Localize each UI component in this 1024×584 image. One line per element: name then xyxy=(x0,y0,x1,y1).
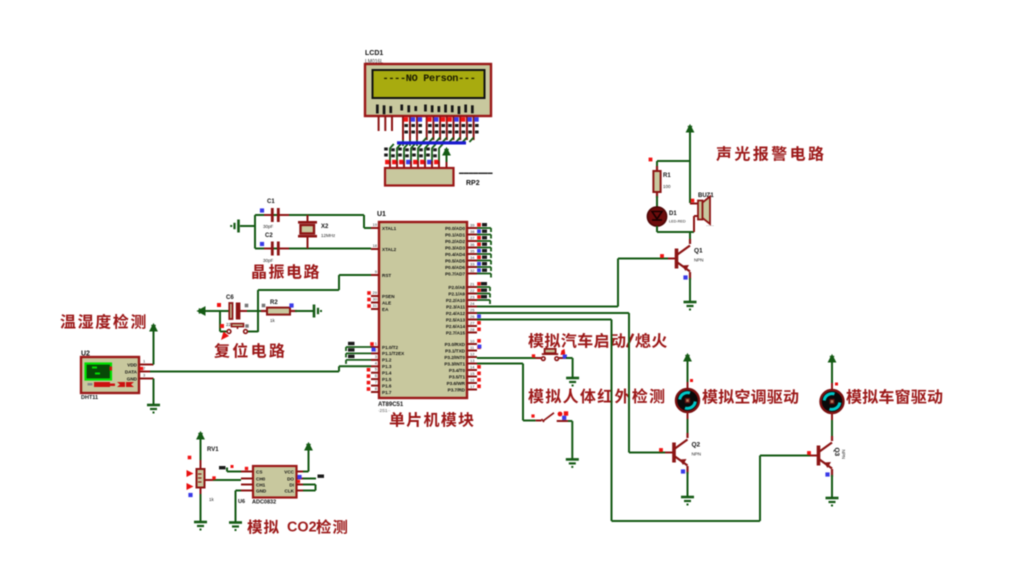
potentiometer RV1 xyxy=(197,469,214,488)
svg-text:P2.1/A9: P2.1/A9 xyxy=(448,291,465,296)
svg-text:34: 34 xyxy=(470,255,475,260)
LCD pins D0-D7 xyxy=(427,116,474,140)
resistor R1 xyxy=(653,166,660,198)
svg-text:VCC: VCC xyxy=(284,470,294,475)
wire XTAL bottom net xyxy=(255,248,371,250)
svg-text:·2S1··: ·2S1·· xyxy=(378,408,391,413)
svg-text:12: 12 xyxy=(470,352,475,357)
switch infrared xyxy=(536,413,568,422)
svg-text:DHT11: DHT11 xyxy=(81,395,98,401)
svg-text:39: 39 xyxy=(470,223,475,228)
wire Q2 emitter ground xyxy=(687,472,689,496)
svg-text:P2.0/A8: P2.0/A8 xyxy=(448,285,465,290)
power reset (left arrow) xyxy=(198,307,214,315)
svg-text:C2: C2 xyxy=(265,233,273,239)
svg-text:P1.1/T2EX: P1.1/T2EX xyxy=(382,351,405,356)
ADC GND wire xyxy=(236,490,242,492)
svg-text:P0.7/AD7: P0.7/AD7 xyxy=(445,271,465,276)
wire alarm bottom rail xyxy=(657,231,694,233)
svg-text:P3.7/RD: P3.7/RD xyxy=(448,387,466,392)
svg-text:30pF: 30pF xyxy=(263,258,274,263)
ADC DI-CLK loop xyxy=(303,484,316,486)
svg-text:CH1: CH1 xyxy=(256,483,266,488)
wire Q1 emitter to ground xyxy=(689,278,691,301)
wire power to RV1 xyxy=(200,440,202,460)
wire MCU P2.5 to Q3 base xyxy=(477,319,612,321)
wire Q2 base xyxy=(629,452,667,454)
svg-text:P1.0/T2: P1.0/T2 xyxy=(382,345,399,350)
wire reset top xyxy=(211,310,229,312)
wire RV1 to ground xyxy=(200,488,202,495)
LCD RS RW E net hooks xyxy=(403,140,417,146)
power alarm xyxy=(686,125,693,135)
svg-text:33: 33 xyxy=(470,262,475,267)
ground Q1 xyxy=(684,302,697,310)
svg-text:P3.5/T1: P3.5/T1 xyxy=(449,374,466,379)
reset button xyxy=(227,324,247,334)
wire switch to ground xyxy=(568,420,572,422)
P0 net label specks xyxy=(482,223,487,272)
LCD pin markers xyxy=(404,117,409,122)
wire C6 to R2 xyxy=(247,310,267,312)
ADC DO net stub xyxy=(303,478,316,480)
motor M1 aircon xyxy=(676,389,699,412)
svg-text:▬▬▬▬▬▬▬: ▬▬▬▬▬▬▬ xyxy=(459,171,493,176)
label 温湿度检测 xyxy=(60,314,145,329)
P0 P2 pin markers xyxy=(477,223,481,227)
MCU left pin stubs xyxy=(371,228,379,392)
svg-text:RP2: RP2 xyxy=(466,180,480,187)
ADC U6 body ADC0832 xyxy=(253,466,297,498)
wire XTAL top net xyxy=(255,214,364,216)
capacitor C6 xyxy=(229,303,249,319)
svg-text:P1.6: P1.6 xyxy=(382,383,392,388)
svg-text:P3.4/T0: P3.4/T0 xyxy=(449,368,466,373)
svg-text:U6: U6 xyxy=(238,499,245,505)
LCD pin name marks under screen xyxy=(376,105,474,115)
svg-text:P2.4/A12: P2.4/A12 xyxy=(446,311,466,316)
svg-text:X2: X2 xyxy=(321,224,329,230)
DHT11 pins xyxy=(139,365,154,379)
svg-text:P2.5/A13: P2.5/A13 xyxy=(446,317,466,322)
svg-text:DATA: DATA xyxy=(125,370,138,375)
svg-text:PSEN: PSEN xyxy=(382,294,395,299)
svg-text:GND: GND xyxy=(127,377,138,382)
LCD net label specks xyxy=(404,124,478,134)
svg-text:DI: DI xyxy=(289,483,294,488)
svg-text:3: 3 xyxy=(143,373,146,378)
DHT11 display xyxy=(86,364,112,380)
label 模拟空调驱动 xyxy=(702,389,798,404)
svg-text:30pF: 30pF xyxy=(263,224,274,229)
svg-text:NPN: NPN xyxy=(841,450,846,460)
svg-text:P0.3/AD3: P0.3/AD3 xyxy=(445,245,465,250)
transistor Q2 xyxy=(674,440,688,466)
LCD LCD1 body xyxy=(365,64,491,116)
RP2 pins xyxy=(390,161,439,168)
LCD pins RS RW E xyxy=(403,116,417,140)
svg-text:ADC0832: ADC0832 xyxy=(252,500,276,506)
wire LED to rail xyxy=(656,226,658,232)
svg-text:12MHz: 12MHz xyxy=(321,233,336,238)
svg-text:P1.4: P1.4 xyxy=(382,371,392,376)
svg-text:P2.7/A15: P2.7/A15 xyxy=(446,330,466,335)
wire ground stub xyxy=(240,225,255,227)
crystal X2 xyxy=(298,215,317,249)
svg-text:C1: C1 xyxy=(267,199,275,205)
svg-text:11: 11 xyxy=(470,345,475,350)
svg-text:NPN: NPN xyxy=(694,258,704,263)
svg-text:BUZ1: BUZ1 xyxy=(698,193,714,199)
wire power to motor1 xyxy=(687,362,689,382)
svg-text:27: 27 xyxy=(470,321,475,326)
svg-text:Q1: Q1 xyxy=(694,248,703,255)
svg-text:1: 1 xyxy=(375,341,378,346)
svg-text:30: 30 xyxy=(373,297,378,302)
power RV1 xyxy=(197,432,204,442)
svg-text:P0.1/AD1: P0.1/AD1 xyxy=(445,232,465,237)
button red arrow xyxy=(221,332,229,341)
capacitor C2 xyxy=(264,242,289,256)
svg-text:LCD1: LCD1 xyxy=(365,50,383,57)
svg-text:P2.2/A10: P2.2/A10 xyxy=(446,298,466,303)
P3 unused pin markers xyxy=(477,339,481,343)
svg-text:35: 35 xyxy=(470,249,475,254)
svg-text:Q2: Q2 xyxy=(692,442,701,449)
label 晶振电路 xyxy=(252,264,319,279)
wire DHT11 GND xyxy=(153,379,155,405)
svg-text:NPN: NPN xyxy=(692,452,702,457)
svg-text:8: 8 xyxy=(375,386,378,391)
svg-text:26: 26 xyxy=(470,314,475,319)
wire DHT11 VDD xyxy=(153,332,155,365)
svg-text:9: 9 xyxy=(375,269,378,274)
wire R1 top lead xyxy=(656,161,658,171)
MCU left pin markers xyxy=(367,291,371,295)
svg-text:29: 29 xyxy=(373,290,378,295)
transistor Q1 xyxy=(689,239,691,280)
power ADC xyxy=(305,443,312,453)
svg-text:R2: R2 xyxy=(270,300,278,306)
svg-text:U1: U1 xyxy=(377,211,386,218)
svg-text:CLK: CLK xyxy=(285,489,295,494)
P1.0-P1.2 net stubs xyxy=(346,347,371,364)
DHT11 sensor body xyxy=(81,357,139,393)
svg-text:P3.6/WR: P3.6/WR xyxy=(447,381,466,386)
svg-text:CS: CS xyxy=(256,470,262,475)
MCU right pin stubs xyxy=(467,228,477,390)
svg-text:R1: R1 xyxy=(663,173,671,179)
svg-text:P2.6/A14: P2.6/A14 xyxy=(446,324,466,329)
svg-text:DO: DO xyxy=(287,477,294,482)
svg-text:7: 7 xyxy=(375,380,378,385)
wire MCU P2.4 to Q2 base xyxy=(477,312,629,314)
P0 net stub wires to LCD data xyxy=(477,228,491,278)
resistor R2 xyxy=(261,308,297,315)
wire motor2 to Q3 xyxy=(831,413,833,421)
wire button branch xyxy=(219,311,221,332)
wire RST net xyxy=(339,274,371,276)
svg-text:P1.3: P1.3 xyxy=(382,364,392,369)
power motor1 xyxy=(684,354,691,364)
wire alarm vertical xyxy=(689,133,691,203)
svg-text:VDD: VDD xyxy=(127,363,137,368)
ground button xyxy=(566,378,579,386)
LCD screen xyxy=(373,70,485,98)
svg-text:P3.0/RXD: P3.0/RXD xyxy=(445,342,466,347)
svg-text:21: 21 xyxy=(470,282,475,287)
svg-text:----NO Person---: ----NO Person--- xyxy=(383,74,476,85)
wires LCD D0-D7 to bus to RP2 xyxy=(390,138,474,162)
button start/stop xyxy=(536,349,567,361)
svg-text:ALE: ALE xyxy=(382,300,391,305)
ADC CS net stub xyxy=(227,471,241,473)
label 声光报警电路 xyxy=(716,146,823,161)
svg-text:17: 17 xyxy=(470,384,475,389)
ground reset (rotated right) xyxy=(314,305,321,318)
wire DHT11 DATA to MCU P1.3 xyxy=(150,371,339,373)
svg-text:······: ······ xyxy=(706,223,714,228)
DHT11 bottom red marks xyxy=(94,382,134,387)
svg-text:XTAL2: XTAL2 xyxy=(382,247,397,252)
svg-text:D1: D1 xyxy=(669,211,677,217)
svg-text:P0.5/AD5: P0.5/AD5 xyxy=(445,258,465,263)
MCU left pin labels xyxy=(382,226,405,395)
power RP2 xyxy=(443,148,450,158)
svg-text:36: 36 xyxy=(470,242,475,247)
bus xyxy=(397,141,466,144)
svg-text:37: 37 xyxy=(470,236,475,241)
svg-text:P1.7: P1.7 xyxy=(382,390,392,395)
ground crystal (rotated) xyxy=(231,220,238,233)
ground DHT11 xyxy=(147,405,160,413)
svg-text:C6: C6 xyxy=(226,295,234,301)
power DHT11 VDD xyxy=(150,324,157,334)
label 模拟CO2检测 xyxy=(247,519,347,535)
wire Q3 emitter ground xyxy=(831,475,833,497)
svg-text:13: 13 xyxy=(470,358,475,363)
svg-text:P0.4/AD4: P0.4/AD4 xyxy=(445,252,465,257)
RP2 pin markers xyxy=(385,160,390,165)
ground Q3 xyxy=(826,498,839,506)
svg-text:1k: 1k xyxy=(209,497,215,502)
wire trunk left xyxy=(254,215,256,249)
label 模拟车窗驱动 xyxy=(846,389,942,404)
LCD pins VSS VDD VEE xyxy=(379,116,392,131)
svg-text:6: 6 xyxy=(375,373,378,378)
svg-text:Q3: Q3 xyxy=(833,448,840,457)
label 模拟汽车启动熄火 xyxy=(528,333,667,348)
svg-text:23: 23 xyxy=(470,295,475,300)
ADC internal pin labels xyxy=(256,470,267,494)
MCU right pin labels xyxy=(444,226,465,392)
transistor Q3 xyxy=(819,443,833,469)
P2.0-P2.2 net stubs to LCD control xyxy=(477,287,490,304)
svg-text:22: 22 xyxy=(470,288,475,293)
svg-text:3: 3 xyxy=(375,354,378,359)
svg-text:P2.3/A11: P2.3/A11 xyxy=(446,304,465,309)
svg-text:LED-RED: LED-RED xyxy=(669,220,686,224)
svg-text:P0.2/AD2: P0.2/AD2 xyxy=(445,239,465,244)
svg-text:15: 15 xyxy=(470,371,475,376)
svg-text:38: 38 xyxy=(470,229,475,234)
wire R2 to ground xyxy=(295,310,313,312)
svg-text:CH0: CH0 xyxy=(256,477,266,482)
MCU U1 body AT89C51 xyxy=(379,222,467,398)
wire button to ground xyxy=(566,357,573,359)
label 单片机模块 xyxy=(390,412,474,427)
svg-text:EA: EA xyxy=(382,307,389,312)
svg-text:2: 2 xyxy=(143,366,146,371)
wire MCU P2.3 to Q1 base xyxy=(477,306,618,308)
svg-text:1: 1 xyxy=(143,359,146,364)
resistor pack RP2 xyxy=(385,168,454,186)
svg-text:P0.0/AD0: P0.0/AD0 xyxy=(445,226,465,231)
svg-text:100: 100 xyxy=(663,184,671,189)
svg-text:31: 31 xyxy=(373,303,378,308)
svg-text:19: 19 xyxy=(373,222,378,227)
svg-text:GND: GND xyxy=(256,489,267,494)
svg-text:RV1: RV1 xyxy=(207,447,219,453)
svg-text:P1.5: P1.5 xyxy=(382,377,392,382)
svg-text:18: 18 xyxy=(373,243,378,248)
svg-text:4: 4 xyxy=(375,360,378,365)
svg-text:P0.6/AD6: P0.6/AD6 xyxy=(445,265,465,270)
svg-text:XTAL1: XTAL1 xyxy=(382,226,397,231)
wire power to motor2 xyxy=(831,363,833,383)
svg-text:P3.2/INT0: P3.2/INT0 xyxy=(444,355,465,360)
wire Q1 base xyxy=(618,258,670,260)
label 复位电路 xyxy=(214,343,284,358)
wire motor1 to Q2 xyxy=(687,412,689,420)
svg-text:P3.3/INT1: P3.3/INT1 xyxy=(444,361,465,366)
wire R1 to LED xyxy=(656,196,658,208)
wire RV1 wiper to ADC CH0 xyxy=(213,479,241,481)
ground Q2 xyxy=(681,497,694,505)
svg-text:CO2: CO2 xyxy=(287,520,317,536)
svg-text:14: 14 xyxy=(470,365,475,370)
MCU right pin numbers xyxy=(470,223,475,390)
power motor2 xyxy=(828,355,835,365)
svg-text:5: 5 xyxy=(375,367,378,372)
wire P3.3 to switch xyxy=(477,363,523,365)
DHT11 pin names xyxy=(125,363,138,382)
ground ADC xyxy=(229,523,242,531)
wire P3.2 to button xyxy=(476,357,478,358)
svg-text:P1.2: P1.2 xyxy=(382,358,392,363)
svg-text:P3.1/TXD: P3.1/TXD xyxy=(445,348,466,353)
svg-text:25: 25 xyxy=(470,308,475,313)
capacitor C1 xyxy=(264,208,289,222)
svg-text:28: 28 xyxy=(470,327,475,332)
svg-text:24: 24 xyxy=(470,301,475,306)
wire Q3 base xyxy=(760,455,812,457)
ground RV1 xyxy=(194,522,207,530)
MCU left pin numbers xyxy=(373,222,378,391)
ADC left pins xyxy=(241,472,253,491)
svg-text:10: 10 xyxy=(470,339,475,344)
wire alarm top rail xyxy=(657,160,690,162)
transistor Q1 xyxy=(677,246,691,272)
RP2 net label specks xyxy=(384,148,437,158)
svg-text:RST: RST xyxy=(382,273,391,278)
LED D1 xyxy=(647,207,666,226)
label 模拟人体红外检测 xyxy=(528,388,664,403)
ADC right pins xyxy=(297,472,304,491)
svg-text:32: 32 xyxy=(470,268,475,273)
ground switch xyxy=(566,459,579,467)
wire collector Q1 xyxy=(689,232,691,240)
svg-text:1k: 1k xyxy=(270,318,276,323)
svg-text:16: 16 xyxy=(470,378,475,383)
motor M2 window xyxy=(821,390,844,413)
